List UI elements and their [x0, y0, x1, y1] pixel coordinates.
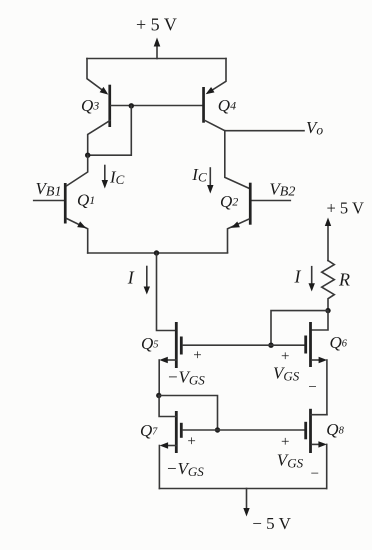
resistor R: [322, 261, 335, 311]
arrow Q1 emitter (NPN): [77, 221, 86, 228]
wire Q2 emitter: [228, 219, 250, 253]
svg-text:Q7: Q7: [140, 421, 158, 440]
arrow +5V right supply: [327, 224, 329, 261]
svg-text:VB2: VB2: [269, 180, 295, 200]
svg-text:+: +: [281, 434, 289, 450]
svg-text:+: +: [193, 348, 201, 364]
svg-text:Q3: Q3: [81, 96, 99, 115]
arrow Q3 emitter (PNP): [100, 87, 109, 95]
svg-text:Q1: Q1: [77, 191, 95, 210]
node tail: [154, 250, 159, 255]
node Q5 source / Q7 drain: [156, 393, 161, 398]
wire Q4 emitter lead: [208, 59, 226, 93]
node gate line bottom: [215, 427, 220, 432]
wire R to Q6 drain: [312, 311, 328, 330]
wire bottom rail: [159, 488, 326, 490]
svg-text:VB1: VB1: [36, 179, 62, 199]
svg-text:−: −: [308, 380, 316, 396]
svg-text:−VGS: −VGS: [167, 368, 205, 388]
wire gate line Q5-Q6: [183, 344, 305, 346]
wire Q7 source: [164, 445, 176, 447]
svg-text:I: I: [127, 268, 135, 288]
wire tail drop to Q5 drain: [157, 253, 177, 331]
+5V supply arrow: [156, 45, 158, 59]
wire Q1 emitter: [67, 219, 88, 254]
wire base-collector link: [88, 106, 132, 155]
arrow I tail: [146, 267, 148, 288]
wire Q5s-Q7g link: [159, 396, 218, 431]
wire Q2 base lead: [252, 200, 291, 202]
svg-text:Q4: Q4: [218, 96, 236, 115]
wire Q3 emitter lead: [87, 59, 106, 93]
node R bottom junction: [325, 308, 330, 313]
wire Q8 drain: [311, 414, 327, 416]
wire Q5 source: [164, 359, 176, 361]
transistor Q7 gate bar: [180, 423, 183, 438]
wire Q6 source: [312, 359, 320, 361]
svg-text:+ 5 V: + 5 V: [327, 198, 365, 217]
wire Q8 source: [312, 443, 320, 445]
svg-text:IC: IC: [109, 168, 125, 187]
wire tail: [88, 252, 228, 254]
svg-text:Vo: Vo: [306, 118, 323, 137]
wire Vo node to Q2 collector: [225, 131, 249, 189]
svg-text:− 5 V: − 5 V: [252, 514, 291, 533]
wire Q1 base lead: [34, 200, 64, 202]
node base junction: [129, 103, 134, 108]
wire Q7 drain: [159, 396, 176, 417]
wire Q4 collector: [205, 120, 225, 130]
wire Vo output: [225, 130, 304, 132]
transistor Q5 channel: [175, 322, 178, 368]
arrow I right: [311, 267, 313, 285]
wire feedback gate link: [271, 311, 328, 346]
wire Q1 collector lead: [67, 155, 88, 186]
arrow Q4 emitter (PNP): [206, 87, 215, 94]
transistor Q6 gate bar: [304, 336, 307, 354]
svg-text:IC: IC: [191, 165, 207, 184]
wire base line Q3-Q4: [111, 105, 202, 107]
arrow IC left: [104, 166, 106, 182]
transistor Q4 bar: [202, 87, 205, 123]
svg-text:Q2: Q2: [220, 192, 238, 211]
svg-text:VGS: VGS: [277, 451, 304, 471]
svg-text:+: +: [187, 433, 195, 449]
arrow Q2 emitter (NPN): [231, 222, 240, 228]
svg-text:+: +: [281, 349, 289, 365]
transistor Q6 channel: [309, 322, 312, 367]
svg-text:Q5: Q5: [141, 334, 159, 353]
svg-text:−: −: [311, 466, 319, 482]
svg-text:I: I: [294, 267, 302, 287]
transistor Q1 bar: [64, 183, 67, 224]
transistor Q8 gate bar: [304, 422, 307, 440]
wire gate line Q7-Q8: [183, 429, 305, 431]
transistor Q2 bar: [249, 183, 252, 225]
transistor Q8 channel: [309, 409, 312, 453]
arrow -5V supply: [246, 489, 248, 510]
svg-text:+ 5 V: + 5 V: [136, 15, 177, 35]
node gate link: [268, 343, 273, 348]
node collector Q3 / Q1: [85, 153, 90, 158]
wire top +5V rail: [87, 58, 226, 60]
arrow IC right: [209, 168, 211, 185]
transistor Q7 channel: [175, 411, 178, 453]
svg-text:Q6: Q6: [330, 333, 348, 352]
transistor Q3 bar: [108, 85, 111, 127]
wire Q3 collector: [88, 121, 110, 156]
svg-text:−VGS: −VGS: [166, 459, 204, 479]
transistor Q5 gate bar: [180, 337, 183, 355]
svg-text:R: R: [338, 270, 350, 290]
svg-text:Q8: Q8: [326, 420, 344, 439]
svg-text:VGS: VGS: [273, 364, 300, 384]
